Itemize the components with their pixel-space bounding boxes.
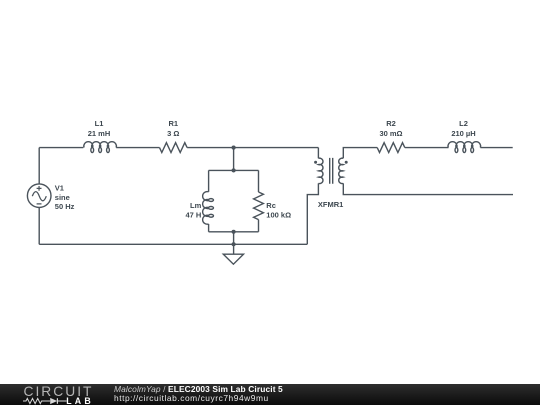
svg-text:47 H: 47 H bbox=[185, 211, 201, 220]
svg-text:Rc: Rc bbox=[266, 201, 276, 210]
svg-text:50 Hz: 50 Hz bbox=[55, 202, 75, 211]
svg-text:R2: R2 bbox=[386, 119, 396, 128]
svg-text:3 Ω: 3 Ω bbox=[167, 129, 179, 138]
svg-text:210 µH: 210 µH bbox=[451, 129, 475, 138]
svg-text:V1: V1 bbox=[55, 184, 64, 193]
svg-text:100 kΩ: 100 kΩ bbox=[266, 211, 291, 220]
svg-text:R1: R1 bbox=[169, 119, 179, 128]
svg-text:sine: sine bbox=[55, 193, 70, 202]
svg-text:L1: L1 bbox=[95, 119, 104, 128]
svg-text:30 mΩ: 30 mΩ bbox=[379, 129, 402, 138]
svg-text:L2: L2 bbox=[459, 119, 468, 128]
svg-text:Lm: Lm bbox=[190, 201, 202, 210]
svg-text:21 mH: 21 mH bbox=[88, 129, 111, 138]
svg-text:XFMR1: XFMR1 bbox=[318, 200, 343, 209]
